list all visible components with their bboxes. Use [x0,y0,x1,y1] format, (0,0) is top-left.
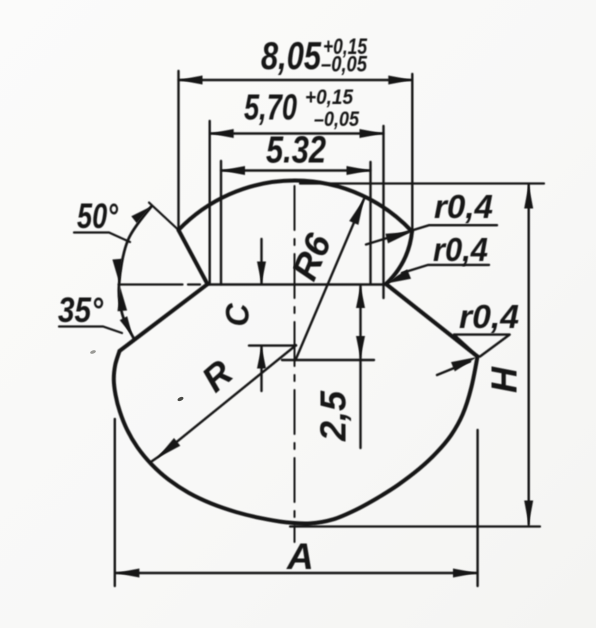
arrowhead C bottom [257,347,266,369]
dim 5,70 dimension line [210,132,384,134]
arrowhead r0,4 lower [451,357,477,371]
dim 2,5 dimension line [359,286,361,448]
right ear lower edge to tip [386,284,478,357]
svg-text:50°: 50° [77,197,119,236]
svg-text:C: C [219,303,255,327]
label 50deg leader [74,233,130,243]
arrowhead 8,05 left [179,76,203,85]
dim C lower boundary line [249,344,296,346]
dim 5.32 dimension line [221,169,371,171]
leader r0,4 middle (to ear corner) [402,265,489,273]
dim C upper arrow line [260,239,262,284]
arrowhead H top [524,185,533,209]
arrowhead angle arc end (35deg) [120,316,133,336]
dim 8,05 dimension line [179,79,413,81]
arrowhead angle arc upper [131,206,151,223]
svg-text:r0,4: r0,4 [459,298,519,335]
dim 5,70 right extension line [382,126,384,298]
leader r0,4 upper (to cusp) [366,225,497,244]
svg-text:35°: 35° [58,291,104,330]
radius R line [150,345,296,462]
dim H top boundary line [300,182,544,184]
wire vertical centerline [294,186,296,542]
angle 50deg thin extension line [149,203,179,230]
arrowhead angle arc lower (35deg side, tip at centreline) [118,287,128,311]
arrowhead A right [453,569,477,578]
node centerline solid middle [206,283,386,285]
svg-text:2,5: 2,5 [313,390,354,442]
dim 2,5 lower boundary line (R6 centre mark) [282,359,374,361]
dim 8,05 left extension line [177,71,179,230]
arrowhead R6 [349,199,364,225]
arrowhead r0,4 middle [385,269,411,283]
dim 8,05 right extension line [411,74,413,232]
arrowhead r0,4 upper [385,232,411,244]
arrowhead 2,5 bottom [356,336,365,358]
svg-text:r0,4: r0,4 [434,188,493,225]
arrowhead 5.32 right [347,166,371,175]
leader r0,4 lower (to tip) underline and V [454,335,510,357]
svg-text:A: A [286,536,314,577]
left notch lower edge 35deg [120,284,208,351]
svg-text:8,05: 8,05 [261,35,322,78]
radius R6 line [296,199,365,360]
svg-text:–0,05: –0,05 [321,52,368,77]
arrowhead 5.32 left [221,166,245,175]
arrowhead C top [257,262,266,284]
dim 5.32 right extension line [369,162,371,283]
arrowhead 5,70 right [360,129,384,138]
svg-text:r0,4: r0,4 [433,231,488,268]
label 35deg leader [59,327,122,334]
dim H dimension line [528,185,530,525]
arrowhead H bottom [524,501,533,525]
paper speckle left [90,349,97,354]
arrowhead A left [115,569,139,578]
svg-text:–0,05: –0,05 [314,108,359,131]
right ear concave edge r0.4 [386,232,412,285]
arrowhead angle arc lower (50deg side, tip at centreline) [112,259,122,283]
dim H bottom boundary line [290,525,540,527]
bottom arc R profile [114,351,478,524]
top arc R6 profile [179,181,413,232]
left notch upper edge 50deg [179,230,208,284]
angle dimension arc [119,206,152,338]
dim 5,70 left extension line [208,121,210,285]
arrowhead 2,5 top [356,286,365,308]
dim C lower arrow line [260,347,262,392]
arrowhead 8,05 right [388,76,412,85]
dim 5.32 left extension line [220,161,222,285]
dim A left extension line [114,419,116,586]
svg-text:+0,15: +0,15 [305,86,353,109]
leader r0,4 lower inner arrow line [437,362,470,376]
svg-text:5,70: 5,70 [244,87,297,128]
arrowhead 5,70 left [210,129,234,138]
arrowhead R [157,438,180,458]
wire horizontal centerline left [119,283,201,285]
dim A right extension line [476,430,478,586]
dim A dimension line [115,572,477,574]
svg-text:5.32: 5.32 [266,130,326,172]
paper speckle mid [177,396,184,402]
svg-text:H: H [484,366,525,393]
